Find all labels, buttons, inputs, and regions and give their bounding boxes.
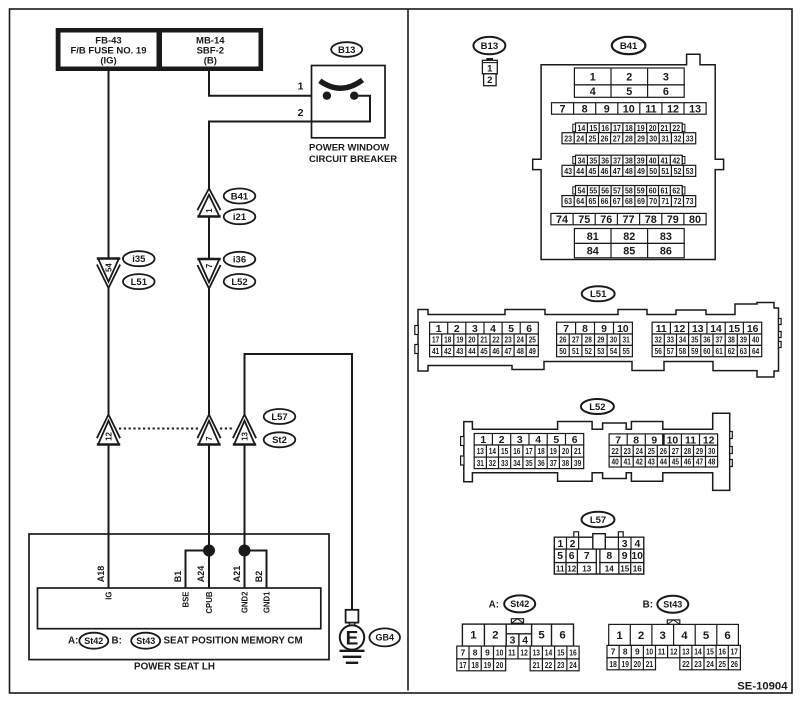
pinout label L57 — [582, 512, 615, 528]
St43 pins 7-17 — [607, 645, 740, 657]
connector 12 up triangle — [97, 415, 120, 445]
svg-text:B41: B41 — [620, 41, 638, 52]
svg-text:(IG): (IG) — [100, 56, 116, 67]
svg-text:63: 63 — [740, 347, 748, 356]
label B41 — [224, 189, 256, 204]
svg-text:82: 82 — [623, 231, 635, 243]
svg-text:17: 17 — [731, 647, 739, 657]
svg-text:54: 54 — [578, 186, 586, 196]
svg-text:14: 14 — [605, 565, 615, 574]
svg-text:14: 14 — [545, 648, 553, 658]
B41 pins 74-80 — [551, 213, 706, 226]
svg-text:64: 64 — [752, 347, 760, 356]
svg-text:8: 8 — [582, 324, 588, 335]
svg-text:5: 5 — [538, 630, 545, 642]
svg-text:3: 3 — [472, 324, 478, 335]
svg-text:8: 8 — [473, 648, 478, 658]
fuse FB-43 F/B FUSE NO. 19 (IG) — [61, 33, 157, 67]
svg-text:20: 20 — [468, 336, 476, 345]
svg-text:83: 83 — [660, 231, 672, 243]
svg-text:73: 73 — [686, 196, 694, 206]
svg-text:1: 1 — [480, 435, 486, 446]
svg-text:St2: St2 — [272, 435, 287, 446]
svg-text:33: 33 — [501, 459, 509, 468]
label A: St42 — [68, 633, 108, 649]
svg-text:18: 18 — [471, 660, 479, 670]
L51 pins 7-10 — [557, 322, 633, 335]
svg-text:23: 23 — [505, 336, 513, 345]
svg-text:20: 20 — [496, 660, 504, 670]
svg-text:19: 19 — [484, 660, 492, 670]
svg-text:42: 42 — [444, 347, 452, 356]
svg-text:17: 17 — [613, 123, 621, 133]
svg-text:5: 5 — [508, 324, 514, 335]
svg-text:44: 44 — [660, 458, 668, 467]
svg-text:E: E — [346, 628, 359, 649]
fuse box housing — [56, 28, 263, 71]
svg-text:20: 20 — [649, 123, 657, 133]
St43 pins 18-21 — [607, 658, 656, 670]
breaker caption POWER WINDOW CIRCUIT BREAKER — [309, 143, 397, 166]
svg-text:CPUB: CPUB — [205, 591, 214, 613]
svg-text:B13: B13 — [481, 41, 498, 52]
svg-text:22: 22 — [612, 447, 620, 456]
svg-text:26: 26 — [660, 447, 668, 456]
svg-text:7: 7 — [563, 324, 569, 335]
svg-text:3: 3 — [622, 539, 628, 550]
svg-text:6: 6 — [572, 435, 578, 446]
svg-text:13: 13 — [682, 647, 690, 657]
svg-text:39: 39 — [637, 155, 645, 165]
svg-text:22: 22 — [492, 336, 500, 345]
svg-text:SEAT POSITION MEMORY CM: SEAT POSITION MEMORY CM — [164, 636, 303, 647]
svg-text:38: 38 — [728, 336, 736, 345]
svg-text:48: 48 — [517, 347, 525, 356]
svg-text:30: 30 — [649, 133, 657, 143]
svg-text:i36: i36 — [233, 255, 246, 266]
svg-text:38: 38 — [625, 155, 633, 165]
svg-text:2: 2 — [638, 630, 644, 642]
svg-text:14: 14 — [489, 447, 497, 456]
svg-text:75: 75 — [578, 214, 590, 226]
label i35 — [123, 251, 155, 266]
label L57 — [264, 409, 296, 424]
svg-text:19: 19 — [622, 659, 630, 669]
svg-text:49: 49 — [529, 347, 537, 356]
svg-text:16: 16 — [513, 447, 521, 456]
L57 pins 14-16 row — [600, 563, 644, 574]
svg-text:20: 20 — [562, 447, 570, 456]
svg-text:CIRCUIT BREAKER: CIRCUIT BREAKER — [309, 154, 397, 165]
svg-text:8: 8 — [582, 103, 588, 115]
svg-text:25: 25 — [529, 336, 537, 345]
svg-text:24: 24 — [576, 133, 584, 143]
connector 54 (i35/L51) down triangle — [97, 259, 120, 289]
inner box SEAT POSITION MEMORY CM — [38, 588, 321, 629]
svg-text:6: 6 — [724, 630, 730, 642]
svg-text:10: 10 — [631, 551, 643, 562]
pinout L57 housing — [554, 537, 643, 574]
St43 pins 22-26 — [680, 658, 741, 670]
svg-text:49: 49 — [637, 166, 645, 176]
svg-text:21: 21 — [661, 123, 669, 133]
svg-text:12: 12 — [670, 647, 678, 657]
svg-text:9: 9 — [601, 324, 607, 335]
svg-text:12: 12 — [105, 431, 114, 440]
svg-text:L57: L57 — [590, 515, 606, 526]
wire L52 to connector 7 lower — [208, 289, 210, 415]
B41 pins 63-73 — [562, 196, 696, 207]
svg-text:BSE: BSE — [182, 592, 191, 608]
svg-text:16: 16 — [633, 565, 643, 574]
svg-text:26: 26 — [559, 336, 567, 345]
svg-text:27: 27 — [672, 447, 680, 456]
label i21 — [224, 209, 256, 224]
svg-text:10: 10 — [617, 324, 629, 335]
svg-text:2: 2 — [570, 539, 576, 550]
svg-text:41: 41 — [661, 155, 669, 165]
svg-text:7: 7 — [205, 264, 214, 268]
svg-text:4: 4 — [522, 636, 528, 647]
svg-text:36: 36 — [601, 155, 609, 165]
svg-text:15: 15 — [557, 648, 565, 658]
svg-text:9: 9 — [622, 551, 628, 562]
svg-text:22: 22 — [545, 660, 553, 670]
svg-text:36: 36 — [538, 459, 546, 468]
svg-text:7: 7 — [461, 648, 466, 658]
svg-text:6: 6 — [663, 86, 669, 98]
pinout B13 connector — [482, 59, 497, 86]
svg-text:34: 34 — [578, 155, 586, 165]
St43 pins 1-6 — [609, 624, 739, 645]
junction A24 — [203, 545, 215, 557]
svg-text:12: 12 — [667, 103, 679, 115]
dotted link 12-7 — [119, 428, 198, 430]
svg-text:59: 59 — [691, 347, 699, 356]
wire L51 to connector 12 — [108, 288, 110, 415]
dotted link 7-13 — [220, 428, 234, 430]
svg-text:61: 61 — [716, 347, 724, 356]
pinout L52 housing — [464, 413, 730, 490]
svg-text:29: 29 — [597, 336, 605, 345]
L57 pins 3-4 — [618, 537, 643, 550]
svg-text:B13: B13 — [338, 45, 355, 56]
svg-text:13: 13 — [241, 431, 250, 440]
svg-text:17: 17 — [525, 447, 533, 456]
svg-text:35: 35 — [691, 336, 699, 345]
B41 pins 54-62 — [573, 187, 576, 194]
svg-text:47: 47 — [696, 458, 704, 467]
svg-text:SE-10904: SE-10904 — [737, 681, 788, 693]
svg-text:9: 9 — [485, 648, 490, 658]
svg-text:6: 6 — [526, 324, 532, 335]
svg-text:23: 23 — [564, 133, 572, 143]
L51 pins 17-25 — [430, 334, 539, 345]
svg-text:45: 45 — [589, 166, 597, 176]
svg-text:1: 1 — [436, 324, 442, 335]
connector 7 up triangle (L57/St2) — [197, 415, 220, 445]
svg-text:16: 16 — [747, 324, 759, 335]
connector 1 (B41/i21) up triangle — [197, 189, 220, 217]
svg-text:45: 45 — [672, 458, 680, 467]
B41 pins 4-6 — [574, 85, 684, 98]
svg-text:GB4: GB4 — [375, 633, 394, 643]
svg-text:43: 43 — [564, 166, 572, 176]
svg-text:55: 55 — [623, 347, 631, 356]
svg-text:15: 15 — [620, 565, 630, 574]
svg-text:71: 71 — [661, 196, 669, 206]
svg-text:41: 41 — [624, 458, 632, 467]
svg-text:5: 5 — [703, 630, 710, 642]
svg-text:37: 37 — [613, 155, 621, 165]
svg-text:65: 65 — [589, 196, 597, 206]
svg-text:32: 32 — [674, 133, 682, 143]
svg-text:5: 5 — [553, 435, 559, 446]
svg-text:55: 55 — [589, 186, 597, 196]
svg-text:3: 3 — [660, 630, 666, 642]
B41 pins 1-3 — [574, 68, 684, 85]
svg-text:63: 63 — [564, 196, 572, 206]
svg-text:32: 32 — [655, 336, 663, 345]
B41 pins 7-13 — [552, 103, 707, 116]
svg-text:St43: St43 — [136, 636, 155, 646]
svg-text:30: 30 — [708, 447, 716, 456]
svg-text:16: 16 — [601, 123, 609, 133]
svg-text:39: 39 — [740, 336, 748, 345]
svg-text:28: 28 — [625, 133, 633, 143]
svg-text:28: 28 — [684, 447, 692, 456]
svg-text:21: 21 — [533, 660, 541, 670]
svg-text:72: 72 — [674, 196, 682, 206]
L51 pins 41-49 — [430, 345, 539, 356]
svg-text:62: 62 — [728, 347, 736, 356]
svg-text:41: 41 — [432, 347, 440, 356]
ground GB4 symbol — [340, 610, 365, 663]
svg-text:24: 24 — [636, 447, 644, 456]
svg-text:74: 74 — [556, 214, 568, 226]
B41 pins 14-22 — [573, 124, 576, 131]
fuse MB-14 SBF-2 (B) — [162, 33, 259, 67]
svg-text:11: 11 — [645, 103, 656, 115]
svg-text:31: 31 — [623, 336, 631, 345]
svg-text:14: 14 — [710, 324, 722, 335]
svg-text:25: 25 — [648, 447, 656, 456]
L57 pins 11-13 row — [554, 563, 596, 574]
svg-text:17: 17 — [432, 336, 440, 345]
svg-text:48: 48 — [708, 458, 716, 467]
circuit breaker B13 label — [331, 42, 362, 57]
svg-text:2: 2 — [454, 324, 460, 335]
svg-text:B:: B: — [112, 636, 122, 647]
svg-text:5: 5 — [626, 86, 632, 98]
svg-text:36: 36 — [703, 336, 711, 345]
svg-text:68: 68 — [625, 196, 633, 206]
pinout label L52 — [581, 399, 614, 414]
svg-text:A18: A18 — [96, 566, 106, 583]
svg-text:47: 47 — [505, 347, 513, 356]
label L51 — [123, 274, 155, 289]
B41 pins 84-86 — [574, 243, 684, 257]
pinout label A: St42 — [489, 599, 499, 610]
breaker internal wire pin2 path — [209, 96, 370, 189]
svg-text:POWER WINDOW: POWER WINDOW — [309, 143, 389, 154]
branch wire B2/GND1 — [245, 551, 267, 589]
svg-text:70: 70 — [649, 196, 657, 206]
svg-text:7: 7 — [584, 551, 590, 562]
B41 pins 81-83 — [574, 229, 684, 244]
svg-text:58: 58 — [625, 186, 633, 196]
svg-text:58: 58 — [679, 347, 687, 356]
svg-text:9: 9 — [635, 647, 640, 657]
svg-text:42: 42 — [672, 155, 680, 165]
connector 13 up triangle — [233, 415, 256, 445]
svg-text:59: 59 — [637, 186, 645, 196]
svg-text:4: 4 — [490, 324, 496, 335]
svg-text:i21: i21 — [233, 212, 247, 223]
svg-text:16: 16 — [719, 647, 727, 657]
svg-text:5: 5 — [557, 551, 563, 562]
B41 pins 34-42 — [573, 157, 576, 164]
svg-text:53: 53 — [597, 347, 605, 356]
svg-text:17: 17 — [459, 660, 467, 670]
svg-text:12: 12 — [520, 648, 528, 658]
svg-text:37: 37 — [716, 336, 724, 345]
svg-text:52: 52 — [585, 347, 593, 356]
svg-text:57: 57 — [667, 347, 675, 356]
L52 pins 31-39 — [474, 457, 584, 469]
St42 housing top tab — [511, 619, 523, 624]
L52 pins 7-12 — [609, 434, 718, 446]
svg-text:3: 3 — [517, 435, 523, 446]
svg-text:10: 10 — [646, 647, 654, 657]
svg-text:IG: IG — [105, 592, 114, 600]
svg-text:L52: L52 — [231, 277, 247, 288]
svg-text:42: 42 — [636, 458, 644, 467]
svg-text:40: 40 — [649, 155, 657, 165]
St42 pins 21-24 — [530, 659, 579, 671]
svg-text:9: 9 — [604, 103, 610, 115]
svg-text:33: 33 — [667, 336, 675, 345]
svg-text:4: 4 — [681, 630, 688, 642]
L51 pins 1-6 — [430, 322, 539, 335]
svg-text:A21: A21 — [232, 566, 242, 583]
wire IG: FB-43 down to connector 54 — [108, 71, 110, 259]
svg-text:11: 11 — [508, 648, 516, 658]
svg-text:4: 4 — [635, 539, 641, 550]
L51 pins 50-55 — [557, 345, 633, 356]
svg-text:57: 57 — [613, 186, 621, 196]
svg-text:2: 2 — [487, 75, 492, 86]
svg-text:21: 21 — [480, 336, 488, 345]
svg-text:40: 40 — [752, 336, 760, 345]
circuit breaker bimetal arc — [320, 80, 363, 88]
svg-text:44: 44 — [576, 166, 584, 176]
svg-text:22: 22 — [672, 123, 680, 133]
St42 pins 7-16 — [457, 646, 579, 659]
circuit breaker POWER WINDOW box — [312, 66, 386, 138]
svg-text:45: 45 — [480, 347, 488, 356]
svg-text:15: 15 — [706, 647, 714, 657]
svg-text:67: 67 — [613, 196, 621, 206]
St42 pins 1-6 row — [462, 624, 573, 647]
svg-text:15: 15 — [501, 447, 509, 456]
svg-text:33: 33 — [686, 133, 694, 143]
svg-text:19: 19 — [456, 336, 464, 345]
svg-text:50: 50 — [559, 347, 567, 356]
svg-text:18: 18 — [538, 447, 546, 456]
svg-text:1: 1 — [487, 64, 493, 75]
svg-text:11: 11 — [656, 324, 667, 335]
pinout label B13 — [473, 37, 505, 54]
svg-text:A:: A: — [68, 636, 78, 647]
svg-text:11: 11 — [556, 565, 565, 574]
svg-text:79: 79 — [667, 214, 679, 226]
wire A18 into power seat box — [108, 445, 110, 589]
svg-text:24: 24 — [569, 660, 577, 670]
svg-text:1: 1 — [470, 630, 477, 642]
svg-text:77: 77 — [622, 214, 634, 226]
svg-text:32: 32 — [489, 459, 497, 468]
svg-text:St42: St42 — [510, 599, 529, 609]
svg-text:18: 18 — [625, 123, 633, 133]
svg-text:1: 1 — [590, 71, 596, 83]
svg-text:A:: A: — [489, 599, 499, 610]
svg-text:38: 38 — [562, 459, 570, 468]
L51 pins 26-31 — [557, 334, 633, 345]
svg-text:14: 14 — [694, 647, 702, 657]
svg-text:62: 62 — [672, 186, 680, 196]
svg-text:29: 29 — [637, 133, 645, 143]
svg-text:19: 19 — [550, 447, 558, 456]
L57 pins 1-2 — [554, 537, 578, 550]
label i36 — [224, 252, 256, 267]
svg-text:27: 27 — [572, 336, 580, 345]
svg-text:15: 15 — [729, 324, 741, 335]
wire CPUB/A24 into power seat box — [208, 445, 210, 589]
svg-text:2: 2 — [626, 71, 632, 83]
svg-text:43: 43 — [456, 347, 464, 356]
svg-text:35: 35 — [589, 155, 597, 165]
svg-text:8: 8 — [606, 551, 612, 562]
svg-text:L52: L52 — [589, 402, 605, 413]
svg-text:B41: B41 — [231, 191, 249, 202]
svg-text:7: 7 — [205, 436, 214, 440]
svg-text:40: 40 — [612, 458, 620, 467]
circuit breaker contact dots — [323, 92, 359, 100]
svg-text:69: 69 — [637, 196, 645, 206]
L52 pins 13-21 — [474, 445, 584, 457]
svg-text:18: 18 — [444, 336, 452, 345]
wire GND2/A21 up to ground run — [244, 445, 246, 589]
svg-text:St42: St42 — [84, 636, 103, 646]
svg-text:1: 1 — [298, 81, 304, 93]
L57 pins 5-7 row — [554, 549, 596, 563]
svg-text:27: 27 — [613, 133, 621, 143]
svg-text:23: 23 — [557, 660, 565, 670]
svg-text:12: 12 — [674, 324, 686, 335]
svg-text:12: 12 — [567, 565, 577, 574]
connector 7 (i36/L52) down triangle — [197, 259, 220, 289]
svg-text:21: 21 — [574, 447, 582, 456]
svg-text:37: 37 — [550, 459, 558, 468]
L52 pins 1-6 — [474, 434, 584, 447]
svg-text:30: 30 — [610, 336, 618, 345]
svg-text:10: 10 — [496, 648, 504, 658]
svg-text:26: 26 — [731, 659, 739, 669]
svg-text:16: 16 — [569, 648, 577, 658]
pinout label B41 — [612, 37, 646, 54]
svg-text:66: 66 — [601, 196, 609, 206]
